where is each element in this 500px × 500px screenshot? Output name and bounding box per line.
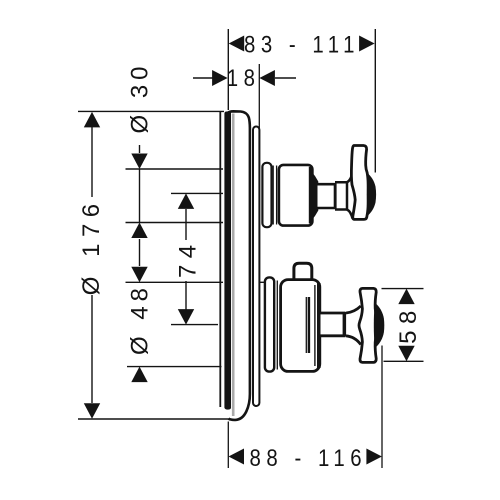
upper hub [347,173,353,219]
lower handle spoke cap [374,303,385,349]
upper handle [351,146,368,220]
svg-text:18: 18 [227,65,261,92]
lower knob [294,263,312,281]
svg-text:83 - 111: 83 - 111 [244,31,360,58]
svg-text:88 - 116: 88 - 116 [250,444,368,471]
svg-text:58: 58 [395,304,422,344]
dimension 18 [193,65,296,92]
lower sleeve cap [265,277,274,371]
lower hub [346,306,361,345]
svg-text:Ø 48: Ø 48 [127,283,154,355]
extension line lower handle tip x=382 [381,346,383,469]
extension line upper handle tip x=375 [374,29,376,173]
upper sleeve cone lines [272,166,274,225]
svg-text:Ø 30: Ø 30 [127,61,154,133]
lower cartridge right edge [317,283,321,368]
upper cartridge [279,165,313,226]
svg-text:74: 74 [175,238,202,278]
lower sleeve cone lines [276,281,278,370]
lower stem right edge [343,312,346,337]
dimension Ø 176 [78,111,229,419]
svg-text:Ø 176: Ø 176 [78,197,105,295]
upper stem [318,184,336,208]
dimension 74 [171,193,223,324]
dimension 58 [382,289,424,362]
upper stem right edge [334,183,337,209]
escutcheon front ring [253,127,259,407]
upper stem step [335,182,347,209]
extension line plate bottom x=228 [227,422,229,469]
lower stem [321,313,345,336]
dimension Ø 48 [126,267,267,382]
extension line left (wall plane x=228) [227,29,229,110]
lower handle [359,288,378,362]
upper cartridge right edge [309,167,312,224]
upper collar [312,173,318,220]
lower cartridge inner lines [305,297,307,353]
escutcheon plate dome [228,111,250,420]
escutcheon plate grey highlight [232,114,235,417]
dimension 83 - 111 [229,31,375,58]
escutcheon plate back flange line [219,112,221,407]
dimension 88 - 116 [229,444,382,471]
dimension Ø 30 [126,61,224,266]
upper handle spoke cap [367,173,376,216]
lower cartridge [281,280,320,372]
upper sleeve cap [262,163,271,227]
escutcheon plate back bar [224,111,231,409]
extension line plate front x=259 [258,64,260,128]
